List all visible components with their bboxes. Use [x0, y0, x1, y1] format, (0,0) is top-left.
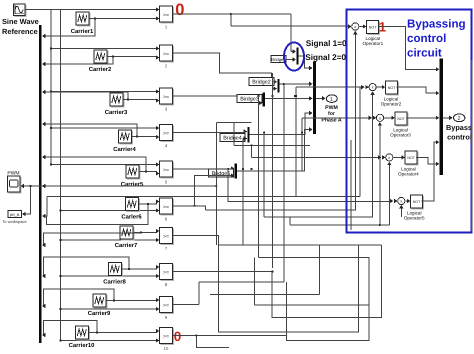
outport 1 PWM — [326, 95, 337, 103]
wire sine reference to compare2 — [51, 48, 156, 50]
wire net compare4 to logical operator3 — [301, 118, 303, 133]
svg-text:Carrier1: Carrier1 — [71, 28, 94, 35]
wire Carrier7 branch loop into mux M0 — [140, 231, 142, 233]
wire net to XOR2 lower input — [263, 133, 265, 217]
relational operator block 2 (>=) — [160, 45, 174, 62]
xor gate row 1 — [352, 23, 359, 30]
svg-text:Reference: Reference — [2, 27, 38, 36]
svg-text:2: 2 — [165, 64, 168, 69]
bypass control group box (blue) — [346, 10, 471, 233]
svg-text:NOT: NOT — [369, 26, 377, 30]
from tag Birdge3 — [237, 95, 262, 103]
mux Bridge4 — [247, 127, 249, 143]
wire trunk compare3 down — [258, 96, 260, 257]
svg-text:1: 1 — [330, 97, 333, 103]
wire M1 output to PWM outport — [316, 97, 323, 99]
svg-text:1: 1 — [165, 25, 168, 30]
mux Bridge1 — [296, 48, 298, 65]
svg-text:0: 0 — [175, 1, 184, 19]
svg-text:Operator3: Operator3 — [390, 133, 411, 138]
wire compare4 branch to Bridge3 mux lower input — [258, 95, 260, 97]
outport 2 Bypass control — [454, 114, 465, 122]
mux Bridge2 — [277, 79, 279, 93]
source block Carrier7 (triangle-wave generator) — [120, 226, 134, 240]
mux Bridge5 — [235, 164, 237, 179]
wire sine reference to compare4 — [51, 127, 156, 129]
xor gate row 5 — [398, 197, 405, 204]
mux Bridge3 — [263, 93, 265, 107]
wire Carrier5 output to compare5 — [139, 172, 156, 174]
wire Bridge4 mux output to main mux M1 — [250, 113, 310, 135]
wire NOT4 output to mux M2 — [416, 157, 436, 164]
wire compare3 output to Bridge3 mux — [173, 95, 260, 97]
wire Carrier2 branch loop into mux M0 — [112, 55, 114, 57]
scope block PWM — [8, 176, 22, 193]
svg-text:7: 7 — [165, 246, 168, 251]
svg-text:>=: >= — [163, 334, 169, 340]
svg-text:Bridge2: Bridge2 — [252, 80, 271, 86]
wire net compare5 region cross — [216, 122, 251, 124]
wire net to logical operator4 — [251, 145, 253, 157]
svg-text:NOT: NOT — [413, 200, 421, 204]
wire M2 output to outport 2 — [443, 117, 450, 119]
svg-text:Carrier3: Carrier3 — [105, 109, 128, 116]
svg-text:control: control — [407, 32, 446, 45]
wire sine reference to compare9 — [61, 308, 157, 310]
wire input into xor 4 — [382, 155, 386, 159]
wire sine reference to compare6 — [61, 210, 157, 212]
svg-text:Phase A: Phase A — [321, 118, 342, 124]
wire Carrier4 output to compare4 — [132, 136, 157, 139]
svg-text:Operator4: Operator4 — [398, 172, 419, 177]
svg-text:>=: >= — [163, 131, 169, 137]
relational operator block 7 (>=) — [160, 228, 174, 245]
wire Bridge1 tag to mux — [286, 59, 293, 61]
svg-text:Bypassing: Bypassing — [407, 17, 466, 30]
wire input into xor 5 — [394, 199, 398, 203]
wire NOT1 output to mux M2 — [379, 27, 437, 70]
svg-text:Carrier2: Carrier2 — [89, 66, 112, 73]
right edge vertical line — [471, 60, 473, 231]
xor gate row 3 — [376, 114, 383, 121]
svg-text:0: 0 — [174, 329, 182, 344]
wire Carrier5 branch loop into mux M0 — [145, 170, 147, 172]
wire Carrier1 output to compare1 — [89, 18, 156, 20]
from tag Bridge4 — [220, 134, 245, 142]
svg-text:Carrier8: Carrier8 — [103, 278, 126, 285]
wire Carrier10 branch loop into mux M0 — [96, 331, 98, 333]
wire Carrier8 output to compare8 — [122, 267, 157, 269]
wire Carrier3 output to compare3 — [123, 100, 156, 101]
wire net compare5 to logical operator5 — [227, 168, 229, 170]
wire compare8 output into staircase — [173, 245, 382, 318]
relational operator block 6 (>=) — [160, 198, 174, 215]
wire compare7 output into staircase — [173, 236, 382, 332]
relational operator block 1 (>=) — [160, 6, 174, 23]
wire Carrier2 output to compare2 — [107, 57, 156, 58]
svg-text:Carrier9: Carrier9 — [88, 310, 111, 317]
from tag Bridge5 — [209, 169, 234, 177]
svg-text:NOT: NOT — [388, 86, 396, 90]
wire sine reference to compare8 — [61, 275, 157, 277]
wire sine reference to compare7 — [61, 239, 157, 241]
wire NOT5 output to mux M2 — [422, 142, 437, 201]
wire xor 4 to NOT 4 — [393, 156, 402, 158]
wire Carrier9 output to compare9 — [106, 299, 156, 302]
svg-text:>=: >= — [163, 167, 169, 173]
source block Carrier10 (triangle-wave generator) — [76, 326, 90, 340]
source block Carrier3 (triangle-wave generator) — [110, 93, 124, 107]
wire compare4 output to Bridge4 mux — [173, 132, 245, 134]
wire Carler6 output to compare6 — [139, 202, 157, 205]
svg-text:5: 5 — [165, 180, 168, 185]
sine distribution rail A x=51 — [50, 10, 52, 165]
wire net compare3 to logical operator2 — [295, 87, 297, 197]
blue highlight ellipse around Bridge1 mux — [284, 43, 304, 71]
wire compare1 output net — [173, 13, 291, 15]
wire input into xor 3 — [373, 116, 377, 120]
svg-text:Carrier7: Carrier7 — [115, 242, 138, 249]
relational operator block 4 (>=) — [160, 125, 174, 142]
svg-text:To workspace: To workspace — [2, 219, 27, 224]
wire net to XOR1 lower input — [205, 32, 355, 210]
logical operator NOT block 1 — [367, 21, 380, 35]
svg-text:>=: >= — [163, 234, 169, 240]
wire Carrier1 branch loop into mux M0 — [94, 17, 96, 19]
svg-text:PWM: PWM — [7, 170, 19, 176]
wire sine reference to compare5 — [51, 164, 156, 166]
svg-text:Signal 1=0: Signal 1=0 — [306, 39, 347, 48]
svg-text:x: x — [354, 24, 356, 29]
svg-text:x: x — [388, 155, 390, 160]
svg-text:Carrier4: Carrier4 — [113, 146, 136, 153]
wire xor 3 to NOT 3 — [384, 117, 392, 119]
svg-text:Carrier10: Carrier10 — [69, 342, 96, 349]
wire NOT3 output to mux M2 — [406, 117, 436, 119]
wire compare9 output upward — [173, 304, 200, 306]
source block Carrier2 (triangle-wave generator) — [94, 50, 108, 64]
wire Carler6 branch loop into mux M0 — [147, 203, 149, 205]
logical operator NOT block 4 — [405, 151, 418, 165]
wire Carrier8 branch loop into mux M0 — [128, 268, 130, 270]
logical operator NOT block 5 — [411, 195, 424, 209]
svg-text:4: 4 — [165, 143, 168, 148]
wire staircase bottom right fillers — [219, 244, 359, 246]
svg-text:2: 2 — [458, 116, 461, 122]
svg-text:NOT: NOT — [407, 156, 415, 160]
wire sine reference to compare3 — [51, 91, 156, 93]
wire Carrier3 branch loop into mux M0 — [127, 98, 129, 100]
svg-text:Signal 2=0: Signal 2=0 — [305, 53, 346, 62]
wire xor 5 to NOT 5 — [405, 200, 407, 202]
svg-text:>=: >= — [163, 204, 169, 210]
wire compare5 output to Bridge5 mux — [173, 168, 232, 170]
svg-text:Operator5: Operator5 — [404, 216, 425, 221]
sine distribution rail B x=60.5 — [60, 10, 62, 341]
wire Bridge1 mux output to main mux M1 — [299, 56, 310, 68]
source block Carrier5 (triangle-wave generator) — [126, 165, 140, 179]
svg-text:x: x — [400, 199, 402, 204]
svg-text:prt_A: prt_A — [10, 212, 20, 217]
wire sine reference to compare10 — [61, 340, 157, 342]
wire compare6 branch to Bridge5 mux lower input — [193, 205, 195, 207]
wire PWM signal to scope and workspace — [22, 185, 217, 187]
svg-text:Operator1: Operator1 — [362, 41, 383, 46]
wire compare5 branch to Bridge4 mux lower input — [242, 168, 244, 170]
svg-text:Carler6: Carler6 — [121, 213, 142, 220]
from tag Bridge1 — [271, 56, 286, 63]
source block Carrier8 (triangle-wave generator) — [109, 263, 123, 277]
wire net to XOR3 and XOR4 lower inputs — [290, 224, 389, 226]
wire rail inside bypass box — [359, 87, 361, 197]
relational operator block 5 (>=) — [160, 161, 174, 178]
wire compare3 branch to Bridge2 mux lower input — [271, 95, 273, 97]
relational operator block 3 (>=) — [160, 88, 174, 105]
svg-text:Birdge3: Birdge3 — [240, 97, 259, 103]
wire xor 2 to NOT 2 — [376, 86, 382, 88]
wire sine output to compare1 top input — [25, 9, 156, 11]
wire input into xor 1 — [348, 24, 352, 28]
svg-text:>=: >= — [163, 303, 169, 309]
svg-text:circuit: circuit — [407, 46, 442, 59]
svg-text:9: 9 — [165, 315, 168, 320]
svg-text:Operator2: Operator2 — [381, 102, 402, 107]
main mux M1 — [313, 62, 316, 135]
from tag Bridge2 — [249, 78, 274, 86]
svg-text:Bypass: Bypass — [446, 123, 472, 132]
mux M2 bypass collector — [440, 58, 443, 174]
wire input into xor 2 — [365, 85, 369, 89]
wire Bridge2 mux output to main mux M1 — [280, 83, 310, 85]
logical operator NOT block 3 — [395, 112, 408, 126]
svg-text:>=: >= — [163, 51, 169, 57]
source block Carrier9 (triangle-wave generator) — [93, 294, 107, 308]
svg-text:>=: >= — [163, 12, 169, 18]
xor gate row 2 — [369, 84, 376, 91]
svg-text:control: control — [447, 132, 472, 141]
svg-text:10: 10 — [164, 346, 169, 351]
wire xor 1 to NOT 1 — [359, 26, 364, 28]
source block Carrier1 (triangle-wave generator) — [76, 12, 90, 26]
wire Carrier4 branch loop into mux M0 — [136, 135, 138, 137]
wire Carrier9 branch loop into mux M0 — [113, 299, 115, 301]
wire net to XOR5 lower input — [400, 206, 402, 217]
svg-text:for: for — [328, 111, 335, 117]
xor gate row 4 — [386, 154, 393, 161]
svg-text:Carrier5: Carrier5 — [121, 181, 144, 188]
wire trunk down from bridge2 output — [283, 84, 285, 282]
svg-text:x: x — [379, 115, 381, 120]
wire compare6 output to XOR1 lower feed — [173, 206, 206, 210]
mux bar M0 (carrier collector) — [39, 25, 42, 343]
wire compare2 output to Bridge2 mux — [173, 53, 272, 82]
svg-text:>=: >= — [163, 270, 169, 276]
svg-text:Bridge5: Bridge5 — [212, 171, 231, 177]
to-workspace block prt_A — [8, 211, 22, 218]
relational operator block 9 (>=) — [160, 297, 174, 314]
svg-text:8: 8 — [165, 282, 168, 287]
wire Bridge5 mux output to main mux M1 — [237, 130, 310, 172]
wire NOT2 output to mux M2 — [397, 87, 437, 93]
source block Carrier4 (triangle-wave generator) — [119, 130, 133, 144]
svg-text:Bridge4: Bridge4 — [223, 136, 242, 142]
wire Carrier7 output to compare7 — [133, 231, 156, 233]
svg-text:Sine Wave: Sine Wave — [2, 17, 39, 26]
wire compare10 output into staircase — [173, 335, 287, 337]
sine wave source U0 — [14, 4, 27, 17]
wire Carrier10 output to compare10 — [89, 331, 157, 333]
svg-text:6: 6 — [165, 217, 168, 222]
wire Bridge3 mux output to main mux M1 — [265, 97, 310, 99]
logical operator NOT block 2 — [386, 81, 399, 95]
svg-text:3: 3 — [165, 107, 168, 112]
wire trunk compare2 down — [272, 73, 274, 268]
relational operator block 10 (>=) — [160, 328, 174, 345]
svg-text:>=: >= — [163, 94, 169, 100]
svg-text:NOT: NOT — [397, 117, 405, 121]
relational operator block 8 (>=) — [160, 264, 174, 281]
wire PWM net stubs into mux M0 — [43, 185, 47, 187]
source block Carler6 (triangle-wave generator) — [126, 198, 140, 212]
svg-text:x: x — [372, 85, 374, 90]
